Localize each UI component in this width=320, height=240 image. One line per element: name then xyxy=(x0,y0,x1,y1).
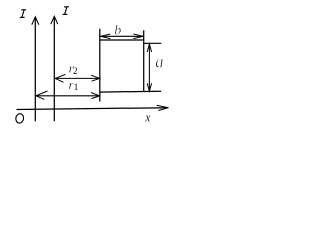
label x (axis) xyxy=(144,110,151,125)
svg-text:a: a xyxy=(155,52,163,72)
dimension r2 arrow line xyxy=(55,77,99,79)
dimension b right arrowhead xyxy=(133,34,143,39)
dimension a bottom arrowhead xyxy=(147,83,151,91)
wire 2 (right current-carrying wire) xyxy=(53,17,55,122)
label a (loop height) xyxy=(155,52,163,72)
rectangle loop right edge xyxy=(143,30,145,91)
dimension b arrow line xyxy=(101,35,144,37)
wire 1 (left current-carrying wire) xyxy=(34,17,36,121)
x axis arrowhead xyxy=(157,105,169,110)
label I (wire 1 current, drawn serif-italic capital I) xyxy=(20,10,26,18)
label I (wire 2 current, drawn serif-italic capital I) xyxy=(63,7,69,15)
label O (origin, drawn as thin italic ellipse) xyxy=(15,113,24,124)
dimension r2 right arrowhead xyxy=(91,75,100,81)
wire 1 arrowhead xyxy=(32,17,39,25)
dimension a arrow line xyxy=(148,44,150,91)
rectangle loop left edge (extended for b and r dimensions) xyxy=(99,29,101,102)
svg-text:1: 1 xyxy=(74,82,79,92)
dimension r1 right arrowhead xyxy=(91,93,100,99)
dimension r1 left arrowhead xyxy=(36,91,48,99)
wire 2 arrowhead xyxy=(51,16,58,24)
x axis xyxy=(17,108,169,110)
dimension b left arrowhead xyxy=(100,34,110,39)
svg-text:2: 2 xyxy=(73,66,78,76)
svg-text:b: b xyxy=(114,24,121,39)
svg-text:x: x xyxy=(144,110,151,125)
rectangle loop bottom edge (extended right for dimension a) xyxy=(100,90,161,93)
rectangle loop top edge xyxy=(100,39,144,41)
dimension r1 arrow line xyxy=(36,95,100,97)
dimension a top extension line xyxy=(144,42,162,44)
dimension a top arrowhead xyxy=(147,44,151,52)
dimension r2 left arrowhead xyxy=(55,74,65,82)
